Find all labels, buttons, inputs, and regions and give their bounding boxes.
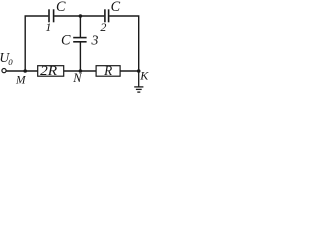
svg-text:C: C — [61, 33, 71, 49]
wire middle branch lower — [79, 42, 81, 71]
svg-text:1: 1 — [45, 20, 51, 34]
wire top-middle segment — [54, 15, 104, 17]
terminal U0 circle — [2, 69, 6, 73]
wire bottom-right segment — [120, 70, 139, 72]
svg-text:C: C — [111, 0, 121, 15]
resistor 2R — [38, 63, 64, 78]
svg-text:0: 0 — [8, 57, 13, 67]
ground — [134, 71, 143, 92]
wire top-right segment with right branch — [109, 16, 138, 71]
junction dot M — [23, 69, 27, 73]
svg-text:M: M — [15, 75, 27, 87]
svg-text:3: 3 — [91, 32, 99, 47]
svg-text:2: 2 — [100, 20, 106, 34]
capacitor C2 — [105, 9, 109, 22]
capacitor C1 — [49, 9, 54, 22]
svg-text:R: R — [103, 63, 112, 78]
capacitor C3 — [73, 38, 86, 42]
svg-text:N: N — [72, 71, 82, 85]
junction dot N — [79, 69, 83, 73]
svg-text:K: K — [139, 69, 149, 83]
junction dot top — [79, 14, 83, 18]
svg-text:C: C — [56, 0, 66, 15]
resistor R — [96, 63, 120, 78]
wire top-left segment with left branch — [25, 16, 48, 71]
wire middle branch upper — [79, 16, 81, 38]
wire bottom-middle segment — [64, 70, 96, 72]
wire bottom-left segment — [6, 70, 38, 72]
svg-text:2R: 2R — [40, 63, 57, 78]
junction dot K — [137, 69, 141, 73]
